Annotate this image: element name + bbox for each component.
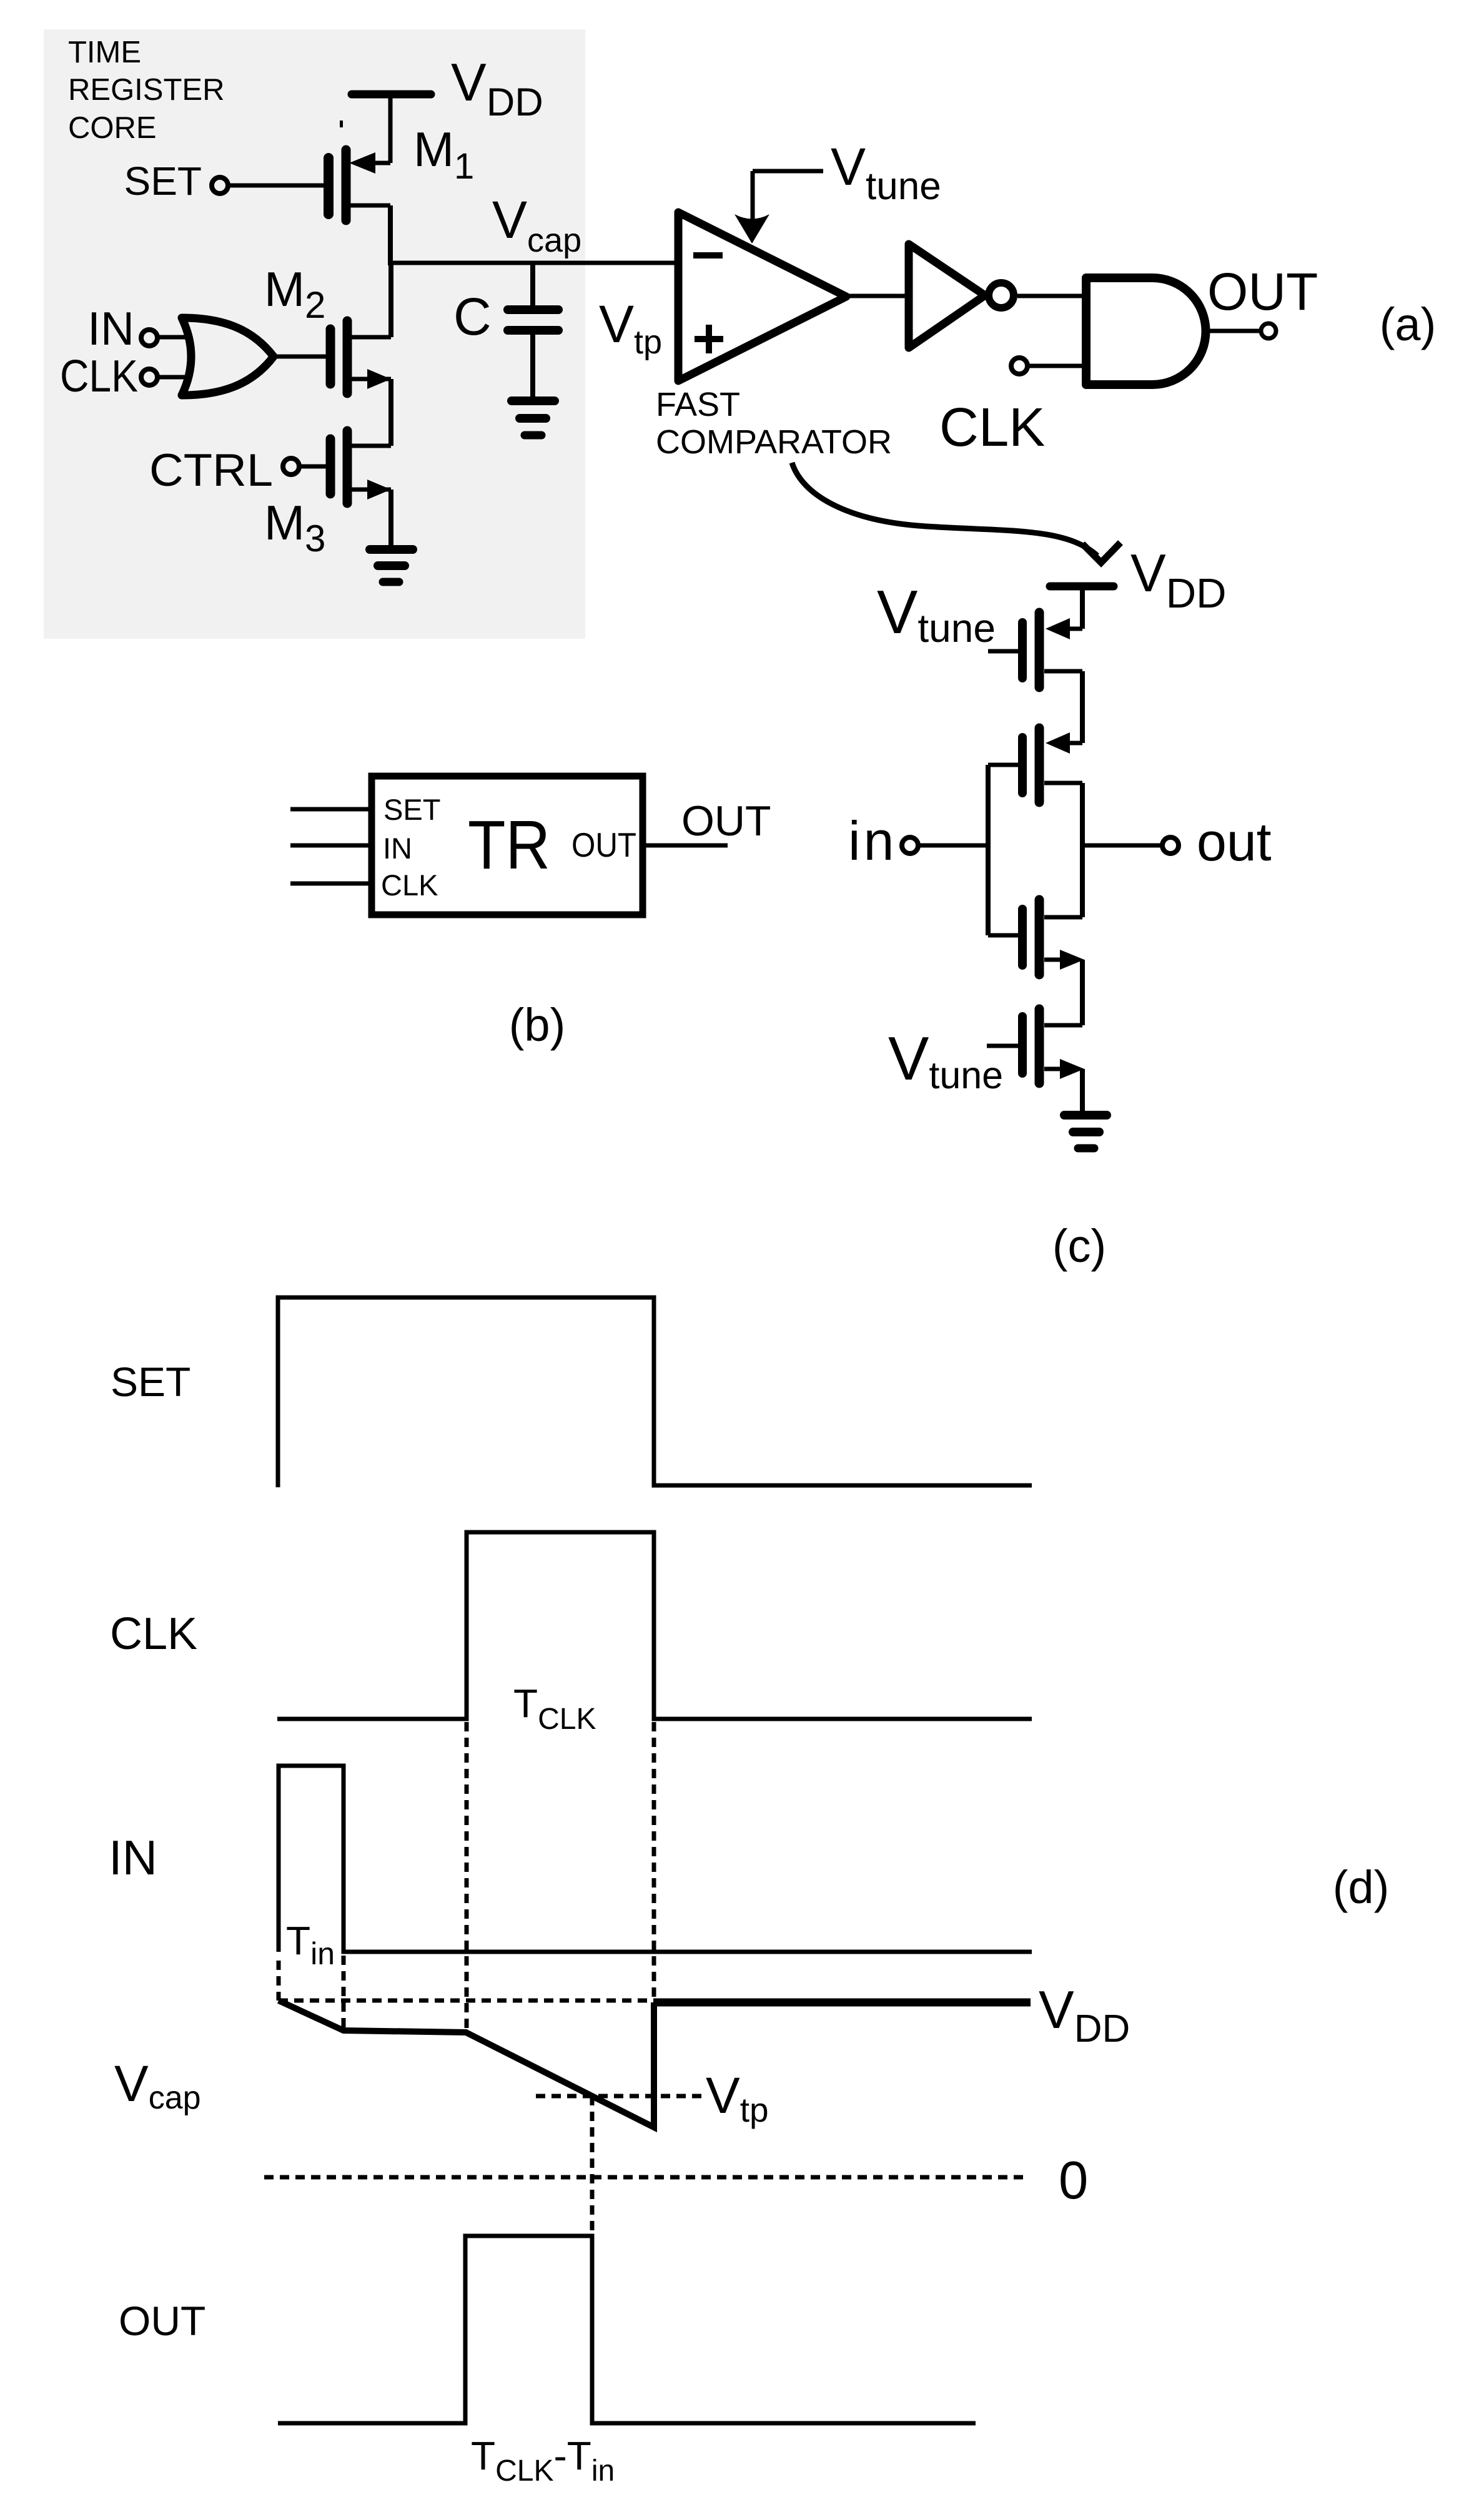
Q1 source wire with arrow <box>1068 627 1082 631</box>
OR gate U1 <box>182 318 274 395</box>
svg-text:CLK: CLK <box>381 869 438 902</box>
transistor Q3 (NMOS) <box>988 900 1084 975</box>
waveform CLK <box>277 1532 1032 1719</box>
AND gate U4 <box>1086 278 1206 385</box>
transistor M2 (NMOS) <box>330 321 391 393</box>
M1 source wire with arrow <box>373 161 390 165</box>
svg-text:(d): (d) <box>1333 1861 1389 1913</box>
M1 drain wire <box>350 204 390 208</box>
dashed line CLK rise <box>465 1722 469 2033</box>
waveform OUT <box>278 2236 976 2423</box>
svg-text:OUT: OUT <box>119 2298 205 2344</box>
wire VDD to Q1 source <box>1080 588 1085 629</box>
svg-text:IN: IN <box>87 302 134 355</box>
svg-text:TIME: TIME <box>68 36 141 69</box>
minus input mark <box>693 252 723 258</box>
M2 channel bar <box>343 321 352 393</box>
svg-text:C: C <box>453 287 492 346</box>
Q3 gate stub <box>988 933 1018 938</box>
transistor Q2 (PMOS) <box>988 728 1082 802</box>
waveform Vcap <box>279 2001 654 2127</box>
svg-text:SET: SET <box>111 1359 190 1405</box>
wire inverter to AND gate <box>1017 294 1087 298</box>
transistor Q1 (PMOS, Vtune) <box>988 613 1082 687</box>
wire gate rail (Q2/Q3 gates) <box>986 765 991 935</box>
dashed line IN rise <box>277 1961 281 2001</box>
inverter bubble <box>989 283 1014 308</box>
annotation arrow from FAST COMPARATOR to circuit (c) <box>792 463 1097 556</box>
wire CLK input (b) <box>290 882 371 886</box>
Q4 gate wire <box>987 1044 1018 1048</box>
wire M2 source down to M3 drain <box>388 379 393 446</box>
M2 gate bar <box>326 329 335 384</box>
wire CLK terminal to AND gate <box>1027 364 1087 368</box>
wire CTRL to M3 gate <box>299 465 327 469</box>
ground below M3 <box>370 549 413 582</box>
Q1 gate wire <box>988 649 1018 654</box>
block TR <box>372 776 643 915</box>
M3 gate bar <box>326 439 335 494</box>
M2 source wire with arrow <box>351 377 391 381</box>
wire OUT output (b) <box>644 844 728 848</box>
M3 channel bar <box>343 431 352 503</box>
wire M2 drain up to Vcap node <box>388 263 393 337</box>
wire VDD to M1 source <box>388 96 393 163</box>
waveform Vcap VDD flat <box>654 1999 1031 2007</box>
svg-text:CLK: CLK <box>110 1609 197 1659</box>
svg-text:CLK: CLK <box>939 397 1045 458</box>
Q2 drain wire <box>1044 781 1082 785</box>
C bottom plate <box>508 326 558 335</box>
Q4 channel bar <box>1035 1009 1044 1083</box>
svg-text:TR: TR <box>468 807 550 883</box>
M1 channel bar <box>342 150 351 220</box>
svg-text:in: in <box>848 810 898 872</box>
node out terminal <box>1162 837 1179 854</box>
wire OR output to M2 gate <box>274 355 327 359</box>
wire Vcap to C top plate <box>530 263 535 307</box>
wire Q4 source to ground <box>1080 1069 1085 1114</box>
Q2 channel bar <box>1035 728 1044 802</box>
svg-text:(c): (c) <box>1052 1220 1106 1272</box>
stray tick mark <box>340 121 343 127</box>
svg-text:out: out <box>1197 812 1272 872</box>
Q1 gate bar <box>1018 623 1027 678</box>
wire CLK to OR gate <box>157 375 190 380</box>
svg-text:OUT: OUT <box>681 797 771 845</box>
svg-text:SET: SET <box>124 159 202 204</box>
dashed line IN fall <box>342 1956 346 2031</box>
transistor M1 (PMOS) <box>329 150 390 220</box>
M2 drain wire <box>351 335 391 340</box>
svg-text:CTRL: CTRL <box>149 445 273 496</box>
wire IN to OR gate <box>157 335 190 340</box>
M3 source wire with arrow <box>351 488 391 492</box>
ground (c) <box>1064 1115 1107 1148</box>
shaded panel TIME REGISTER CORE <box>44 29 585 639</box>
dashed line VDD level <box>279 1999 654 2003</box>
Q4 drain wire <box>1044 1023 1082 1028</box>
wire C bottom plate to ground <box>530 335 535 398</box>
dashed line Vtp crossing <box>590 2096 595 2236</box>
wire SET input (b) <box>290 807 371 812</box>
svg-text:(b): (b) <box>509 999 565 1051</box>
wire Q3 source to Q4 drain <box>1080 960 1085 1025</box>
Q4 source wire with arrow <box>1044 1067 1062 1071</box>
waveform IN <box>279 1766 1032 1952</box>
C top plate <box>508 305 558 314</box>
M3 drain wire <box>351 444 391 448</box>
inverter U3 <box>909 244 985 348</box>
Q3 channel bar <box>1035 900 1044 975</box>
wire IN input (b) <box>290 844 371 848</box>
svg-text:CLK: CLK <box>60 352 138 401</box>
wire M1 drain down to Vcap node <box>388 205 393 265</box>
svg-text:OUT: OUT <box>1207 262 1318 321</box>
Q2 gate bar <box>1018 737 1027 793</box>
wire M3 source down to ground <box>388 490 393 548</box>
node CLK input terminal (AND) <box>1011 358 1027 374</box>
Q2 gate stub <box>988 763 1018 767</box>
wire Q2 drain down to out node <box>1080 783 1085 917</box>
ground below capacitor <box>512 401 555 435</box>
svg-text:FAST: FAST <box>656 386 740 423</box>
wire comparator output to inverter <box>846 294 909 298</box>
op-amp U2 FAST COMPARATOR <box>678 212 846 381</box>
svg-text:COMPARATOR: COMPARATOR <box>656 423 892 461</box>
wire AND output to OUT terminal <box>1205 329 1260 333</box>
wire SET to M1 gate <box>228 184 324 188</box>
wire Q1 drain to Q2 source <box>1080 671 1085 743</box>
svg-text:IN: IN <box>383 832 412 865</box>
wire out node to out terminal <box>1082 844 1162 848</box>
waveform SET <box>278 1297 1032 1487</box>
Q2 source wire with arrow <box>1068 741 1082 746</box>
plus input mark <box>695 336 723 342</box>
svg-text:OUT: OUT <box>571 825 636 864</box>
svg-text:IN: IN <box>109 1830 157 1885</box>
wire in to gate rail <box>918 844 988 848</box>
svg-text:SET: SET <box>383 793 440 826</box>
dashed line zero level <box>264 2175 1029 2180</box>
Q3 drain wire <box>1044 915 1082 920</box>
M1 gate bar <box>324 158 334 214</box>
Q1 channel bar <box>1035 613 1044 687</box>
power VDD rail (c) <box>1050 583 1114 591</box>
Q1 drain wire <box>1044 669 1082 674</box>
svg-text:0: 0 <box>1059 2151 1088 2210</box>
Vtune control arrow into comparator <box>734 171 823 244</box>
Q3 source wire with arrow <box>1044 958 1062 962</box>
dashed line CLK fall <box>652 1722 656 1998</box>
svg-text:(a): (a) <box>1380 298 1436 350</box>
transistor Q4 (NMOS, Vtune) <box>987 1009 1084 1083</box>
capacitor C <box>508 263 558 398</box>
Q4 gate bar <box>1018 1016 1027 1073</box>
dashed line Vtp level <box>536 2094 702 2099</box>
power VDD rail (a) <box>352 91 431 99</box>
svg-text:CORE: CORE <box>68 111 157 145</box>
transistor M3 (NMOS) <box>330 431 391 503</box>
svg-text:REGISTER: REGISTER <box>68 73 224 107</box>
Q3 gate bar <box>1018 909 1027 965</box>
wire Vcap node horizontal to comparator <box>388 261 675 265</box>
node OUT terminal (a) <box>1261 323 1276 338</box>
